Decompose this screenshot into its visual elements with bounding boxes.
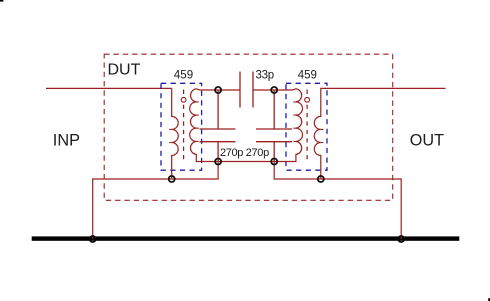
wire INP to transformer T1 primary	[46, 87, 172, 89]
svg-text:33p: 33p	[256, 69, 274, 81]
DUT enclosure dashed box	[104, 54, 393, 200]
node G	[90, 236, 96, 242]
transformer T2 core dashed line	[306, 90, 308, 95]
svg-text:459: 459	[298, 70, 317, 82]
transformer T1 core dashed line	[183, 90, 185, 95]
node F	[318, 176, 324, 182]
node A	[215, 87, 221, 93]
transformer T2 box (blue dashed)	[286, 83, 327, 170]
capacitor C3 270p (right)	[256, 90, 292, 162]
transformer T1 primary winding	[172, 88, 179, 179]
svg-text:459: 459	[174, 70, 193, 82]
svg-text:INP: INP	[53, 132, 80, 150]
corner mark top-left	[0, 0, 3, 2]
node E	[169, 176, 175, 182]
ground bus	[32, 236, 460, 240]
node C	[215, 158, 221, 164]
transformer T2 secondary winding	[274, 89, 302, 162]
transformer T2 primary winding	[314, 88, 445, 179]
node B	[271, 87, 277, 93]
ground return wiring	[93, 162, 218, 240]
wire D down and right to bus	[274, 162, 401, 240]
svg-text:OUT: OUT	[410, 132, 444, 150]
transformer T1 box (blue dashed)	[161, 83, 202, 170]
wire C to D	[218, 161, 274, 163]
node D	[271, 158, 277, 164]
transformer T1 secondary winding	[190, 89, 218, 162]
capacitor C1 33p	[218, 72, 274, 108]
svg-text:270p 270p: 270p 270p	[220, 147, 269, 159]
svg-text:DUT: DUT	[108, 62, 141, 79]
node H	[398, 236, 404, 242]
capacitor C2 270p (left)	[200, 90, 236, 162]
corner mark bottom-right	[488, 298, 490, 301]
